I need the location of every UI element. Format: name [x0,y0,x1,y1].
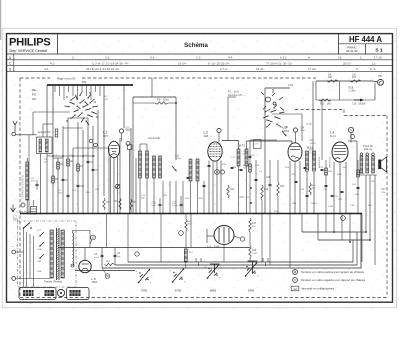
svg-text:EM4: EM4 [214,245,220,249]
power transformer secondary winding [61,230,64,278]
wire P1 stub [228,96,236,98]
antenna coil secondary winding S2 [46,139,49,152]
svg-text:HF 444 A: HF 444 A [349,35,382,44]
wire x262 down [261,200,263,214]
wire below bus x326b [325,214,327,233]
coil S10 winding [189,159,192,181]
resistor R2 [67,159,70,166]
wire x186 link [185,231,187,249]
svg-text:10000: 10000 [310,143,317,145]
wire callout 50 diagonal [102,268,106,274]
band switch SK1 contact starburst [65,92,99,126]
wire vertical x83 [82,130,84,214]
svg-text:R17: R17 [352,76,357,79]
wire phone drop x340 [339,81,341,100]
capacitor C8b [36,183,39,185]
svg-text:C20: C20 [310,140,315,142]
svg-text:1000pF: 1000pF [358,104,366,106]
svg-text:mA: mA [293,288,297,291]
resistor R21 zigzag [185,219,187,231]
wire phone line [316,80,372,82]
table row line 2 [7,65,393,67]
callout left of L6 [179,231,184,236]
svg-text:L.1: L.1 [103,131,108,135]
svg-text:0,5M: 0,5M [328,206,333,208]
wire vertical x78 [77,122,79,214]
output transformer top circles [360,153,363,156]
svg-text:6E8: 6E8 [204,134,209,138]
oscillator switch starburst 2 [263,105,285,128]
tube L5 rectifier envelope [79,260,91,272]
resistor R25 [325,168,328,175]
tube L2 envelope [208,142,222,161]
coil S7 winding [139,151,142,178]
svg-text:C24: C24 [300,128,305,130]
svg-text:R17: R17 [382,189,387,191]
wire rail3 extension right [353,239,370,241]
svg-text:10000-R24: 10000-R24 [319,156,321,168]
svg-text:R12: R12 [230,189,235,191]
svg-text:25-27-: 25-27- [343,61,352,65]
svg-text:1MΩ: 1MΩ [327,103,332,106]
wire horizontal connector y156 [47,155,95,157]
wire vertical coil x170 [169,181,171,214]
coil S11 winding [196,159,199,181]
table letter column line [13,54,15,72]
trimmer arrow C14b [282,131,286,136]
tube L1 envelope [108,141,119,157]
wire component column x250 [249,140,251,214]
svg-text:R2B: R2B [292,203,297,205]
trimmer box [128,145,132,150]
svg-text:0,5M: 0,5M [252,253,257,255]
svg-text:5000: 5000 [243,154,249,156]
svg-text:9- 10- 20-25-24-: 9- 10- 20-25-24- [208,61,230,65]
chassis dashed right side [386,116,388,298]
capacitor C10 [77,184,80,186]
chassis dashed jog horizontal upper [295,109,344,111]
svg-text:4-4-: 4-4- [228,55,233,59]
wire MF1 to L3 grid [246,141,248,149]
circled pair C8 R [89,139,93,143]
tube L6 tuning eye envelope [214,226,234,245]
wire vertical x109 [108,148,110,214]
oscillator switch dots [264,111,265,112]
output transformer winding c [372,156,375,173]
frame aerial winding [26,162,29,200]
tube L5 internals [82,263,89,265]
callout 49 b [221,170,225,174]
svg-text:20000-C28: 20000-C28 [330,156,332,168]
B+ rail 1 [102,214,361,269]
wire coil tops [139,144,141,151]
wire L6 left [207,235,214,237]
wire y103 right [168,102,176,104]
resistor R15 zigzag [319,99,331,101]
wire P1 pot drop x228 [227,97,229,141]
tube L2 pins [208,161,210,214]
legend circled minus symbol [293,278,298,283]
svg-text:1kΩ: 1kΩ [312,187,316,190]
svg-text:Transfo. Réseau: Transfo. Réseau [44,280,63,283]
wire vertical x98 [97,110,99,214]
wire vertical x73 [72,148,74,214]
tube L6 internals [218,228,220,242]
wire below bus x161 [160,214,162,263]
wire HV coil top [73,231,91,248]
svg-text:-24B: -24B [37,261,42,263]
wire transformer return x370 [369,175,371,240]
callout 50 lower [105,274,110,279]
wire bus drop x104 [103,85,105,196]
svg-text:Tension en volts,positive par: Tension en volts,positive par rapport au… [301,270,365,274]
wire switch left vertical x33 [32,112,34,135]
wire phone lower drop x322 [321,100,323,160]
wire x278 up [277,160,279,182]
PSU dash-dot shield box [18,221,77,287]
wire x270 tail [269,160,271,178]
wire below bus x290 [289,214,291,269]
wire L6 bottom down [223,245,225,263]
resistor R16 zigzag [309,183,311,195]
capacitor C11b [67,194,70,196]
svg-text:8µF: 8µF [117,256,121,258]
speaker dark bar [378,160,381,170]
svg-text:7999: 7999 [141,289,148,293]
earth ground symbol left [12,205,14,213]
antenna coil box L0 [37,137,53,154]
svg-text:RE –: RE – [32,88,39,92]
svg-text:19-: 19- [338,55,342,59]
wire horizontal connector y148 [73,147,109,149]
tube L1 grid cap [119,129,123,133]
tube L4 internals [334,145,346,147]
wire horizontal connector y128 [63,127,83,129]
svg-text:4-2-: 4-2- [44,67,49,71]
svg-text:C15: C15 [126,128,131,130]
table row line 1 [7,59,393,61]
wire below bus x318 [317,214,319,241]
wire C7 up [33,200,35,207]
wire from bus down to antenna coil [46,85,48,137]
output transformer winding a [360,156,363,173]
heavy AVC bus line [47,84,133,86]
title block inner line [339,43,393,45]
lower phone wire [316,99,375,101]
B+ rail 3 [128,240,353,262]
capacitor C18b arrow [354,99,362,101]
svg-text:Accord PO: Accord PO [38,130,51,134]
wire vertical x58 [57,158,59,214]
wire right column x326 [325,160,327,214]
wire frame aerial top [26,158,28,162]
wire vertical coil x140 [139,178,141,214]
svg-text:Schéma: Schéma [184,42,208,49]
wire below bus x128 [127,214,129,263]
component box lower switch a [55,129,58,137]
capacitor C17b on column [249,155,252,157]
chassis dashed jog vertical [343,110,345,116]
wire to L4 grid x313 [312,81,314,160]
resistor R30 zigzag [105,263,115,265]
svg-text:34-HF-02-2-34-35-21-22-: 34-HF-02-2-34-35-21-22- [86,67,120,71]
svg-text:L.6: L.6 [207,245,212,249]
wire switch left vertical x43 [42,124,44,137]
capacitor C25 [269,183,272,185]
junction dot 176-103 [175,102,177,104]
svg-text:9- 9-: 9- 9- [370,67,376,71]
svg-text:T.P.: T.P. [80,301,84,304]
svg-text:Pince: Pince [27,301,34,304]
capacitor C5 [92,168,95,170]
svg-text:2-20p: 2-20p [175,158,181,160]
HV coil center tap circle [71,264,74,267]
resistor R27 zigzag [249,218,251,232]
mains terminal upper [12,250,16,254]
tube L4 envelope [332,142,348,162]
wire below bus x106 [106,214,108,248]
wire right column x358 [357,160,359,214]
wire mains upper [16,251,24,253]
wire vertical x136 [135,158,137,214]
junction dots y156 [52,155,54,157]
wire x250 link [249,232,251,246]
svg-text:50pF: 50pF [126,130,132,132]
callout near L4 [351,135,355,139]
coil S8 winding [146,151,149,178]
wire y103 left [133,102,155,104]
power transformer primary winding [50,230,53,278]
wire phone drop x316 [315,81,317,100]
wire vertical x131 [130,128,132,214]
tube L1 pins [110,157,112,214]
resistor R1B on column [249,164,252,172]
voltage selector plate right [67,288,90,300]
wire x250 down [249,258,251,262]
tube L2 internal grid dashes [210,144,221,157]
svg-text:R26: R26 [310,150,315,152]
svg-text:100p: 100p [300,130,306,132]
chassis dashed left side [19,78,21,298]
antenna symbol [14,124,16,131]
resistor R20 zigzag [277,182,279,196]
wire L4 plate to transformer [348,140,357,142]
selector pad 2 [45,290,55,296]
wire L6 right [234,236,240,238]
svg-text:7-6-5-4-3-2-1-0-9-8-7-6: 7-6-5-4-3-2-1-0-9-8-7-6 [23,175,25,199]
capacitor C7 hatched box [31,207,37,215]
band switch SK1 contact dots [70,99,71,100]
svg-text:L.3: L.3 [283,126,288,130]
svg-text:L.4: L.4 [330,131,335,135]
capacitor C28b [331,194,334,196]
svg-text:M.F.1: M.F.1 [239,144,246,148]
band switch tiny plus marks [66,96,68,98]
selector knob circle [57,289,64,296]
svg-text:8999: 8999 [210,289,217,293]
svg-text:17-19-: 17-19- [374,55,383,59]
wire below bus x262 [261,214,263,263]
callout mid [135,252,139,256]
selector pad 1 [23,290,34,296]
wire vertical coil x163 [162,181,164,214]
antenna coil primary winding S1 [39,139,42,152]
wire antenna to coil [16,134,37,136]
tube L3 grid cap [293,128,297,132]
svg-text:0,1MΩ: 0,1MΩ [349,90,356,93]
tube L1 internal electrodes [111,145,118,147]
svg-text:C: C [9,62,12,66]
wire horizontal connector y118 [68,117,88,119]
svg-text:Intensité en milliampères: Intensité en milliampères [301,287,335,291]
wire x186 top [185,214,187,220]
wire switch to left y112 [33,111,70,113]
resistor R4 zigzag [103,198,105,210]
junction dots rails [360,213,362,215]
antenna terminal [12,132,16,136]
svg-text:-S3B: -S3B [37,271,42,273]
svg-text:R20: R20 [280,186,285,188]
resistor R17 zigzag on phone line [350,80,361,82]
svg-text:2kΩ: 2kΩ [58,192,62,195]
wire below bus x270 [269,214,271,266]
capacitor C4 [87,160,90,162]
svg-text:N1F: N1F [246,197,251,199]
header separator vertical left of HF444A block [338,34,340,54]
svg-text:5µF: 5µF [152,205,156,207]
svg-text:2-7-2-: 2-7-2- [220,67,228,71]
mains terminal lower [12,277,16,281]
tuning gang trimmer circle b [273,102,276,105]
wire vertical x53 [52,124,54,214]
wafer feed vertical a [198,262,200,266]
wire jack link [372,81,378,82]
svg-text:4-2-: 4-2- [50,61,55,65]
capacitor C9 wire [114,248,116,266]
wire x186 bottom [185,262,187,268]
callout 49 a [215,170,220,175]
svg-text:06.41.52: 06.41.52 [346,49,358,53]
wire vertical coil x190.5 [190,181,192,214]
wire rail2 extension right [357,231,366,233]
capacitor C17 trimmer arrow [172,166,176,171]
winding S21 [184,249,187,262]
wire callout 23 diagonal [90,240,92,244]
tube L3 pins [289,161,291,214]
wire vertical coil x176 [175,181,177,214]
wire below bus x191 [190,214,192,248]
chassis dashed bottom [20,297,387,299]
tube L3 internals [290,146,300,148]
selector pad 3 [70,290,81,296]
callout 23 top [91,235,96,240]
svg-text:L.2: L.2 [204,131,209,135]
svg-text:20000: 20000 [311,203,318,205]
svg-text:H-: H- [308,55,311,59]
tube L3 envelope [288,143,302,161]
capacitor C8 wire [101,248,103,269]
wire transformer return x366 [365,175,367,232]
extra cap blobs under tubes [231,167,234,169]
svg-text:R27: R27 [252,223,257,225]
wire frame aerial down [26,200,28,214]
wafer switch SK 3 [208,264,220,278]
svg-text:2-2-: 2-2- [105,55,110,59]
svg-text:9-9-: 9-9- [150,55,155,59]
svg-text:R28: R28 [252,250,257,252]
wire vertical coil x147 [146,178,148,214]
wire vertical x63 [62,126,64,214]
svg-text:(C7A): (C7A) [306,123,312,126]
B+ rail 2 [115,232,357,265]
wire vertical x93 [92,126,94,214]
resistor R19 zigzag [261,185,263,200]
output transformer winding b [366,156,369,173]
box C27 [254,140,262,149]
wire coil to ground bus b [46,154,48,214]
main ground bus [20,213,362,215]
svg-text:1883: 1883 [92,280,98,284]
svg-text:14-41-: 14-41- [256,67,265,71]
screen bypass circled [126,142,130,146]
mains switch knife [24,223,31,229]
MF2 primary winding [306,151,309,171]
table row line 3 [7,71,393,73]
svg-text:R19: R19 [264,189,269,191]
svg-text:C18: C18 [352,103,357,106]
capacitor C9 plates [114,254,117,256]
wire below bus x362 [361,214,363,263]
resistor R29 [357,170,360,177]
wire transformer bottom [357,174,377,176]
PSU lower line [75,270,135,272]
MF2 secondary winding [313,151,316,171]
wire cadre vertical x29 [28,135,30,214]
coil S9 winding [153,156,156,178]
speaker cone [381,157,386,172]
selector vertical wires [23,228,25,287]
svg-text:100kΩ: 100kΩ [163,99,170,102]
tuning gang trimmer circle a [266,97,271,102]
resistor R6 [52,176,55,183]
heater rail [58,247,250,249]
wire osc y114 [272,113,302,115]
svg-text:090: 090 [82,80,87,84]
svg-text:9499: 9499 [248,289,255,293]
svg-text:R24: R24 [328,76,333,79]
resistor R1 [57,162,60,169]
ground bus junction dots [27,213,29,215]
svg-text:pick-up: pick-up [364,147,373,151]
svg-text:PH: PH [105,99,108,101]
legend circled plus symbol [293,270,298,275]
svg-text:EBF2: EBF2 [283,129,290,133]
svg-text:6-21-: 6-21- [280,55,287,59]
wire rectifier top [84,248,86,261]
resistor R28 zigzag [249,246,251,258]
wire vertical x68 [67,118,69,214]
resistor R8 zigzag [130,199,132,210]
MF2 wires down [306,171,308,214]
resistor R5 zigzag [119,198,121,210]
MF1 wires down [238,166,240,214]
svg-text:CV2: CV2 [288,83,294,87]
wire vertical coil x154 [153,178,155,214]
svg-text:2-2-: 2-2- [196,55,201,59]
wire horizontal connector y158 [53,157,63,159]
svg-text:12-: 12- [372,61,376,65]
scan edge smudge left [0,0,2,40]
